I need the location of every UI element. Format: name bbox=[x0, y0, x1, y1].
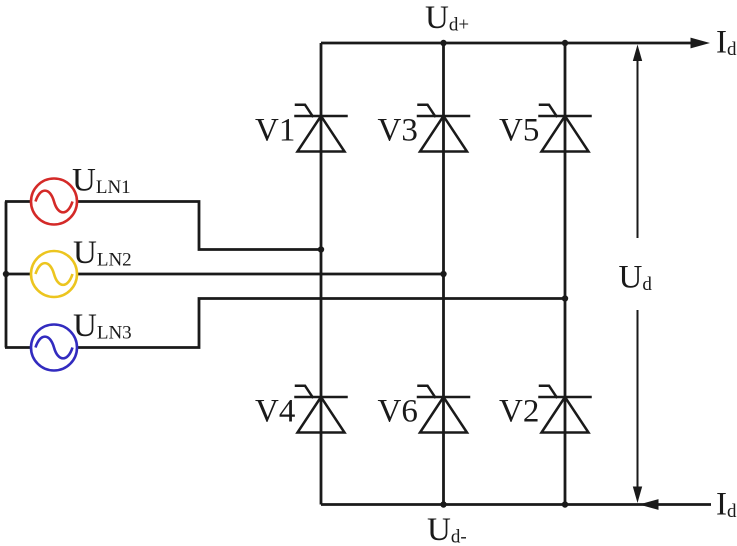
svg-text:V6: V6 bbox=[378, 394, 418, 430]
svg-text:V3: V3 bbox=[378, 113, 418, 149]
svg-text:V4: V4 bbox=[255, 394, 295, 430]
svg-text:V1: V1 bbox=[255, 113, 295, 149]
svg-text:V2: V2 bbox=[499, 394, 539, 430]
svg-text:V5: V5 bbox=[499, 113, 539, 149]
